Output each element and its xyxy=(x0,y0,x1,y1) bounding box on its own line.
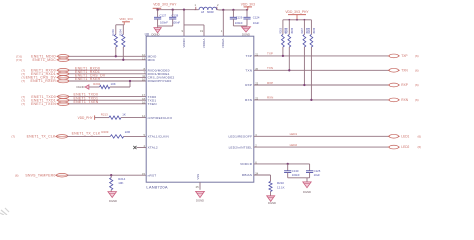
node TXP xyxy=(388,54,419,58)
resistor R202 xyxy=(89,82,116,89)
wire ENET1_RXD1 xyxy=(69,70,146,74)
svg-text:ENET1_MDC: ENET1_MDC xyxy=(33,58,57,62)
capacitor C129 xyxy=(230,10,243,26)
svg-text:LED2: LED2 xyxy=(290,143,298,147)
svg-text:C129: C129 xyxy=(236,15,243,19)
node ENET1_RXD1 xyxy=(21,72,69,76)
node TXN xyxy=(388,68,419,72)
pin 1 VDD2A xyxy=(221,29,225,48)
ground DGND (R214) xyxy=(108,192,117,203)
svg-text:RXP: RXP xyxy=(401,83,408,87)
wire pullup rail xyxy=(283,19,312,21)
svg-text:(6): (6) xyxy=(415,68,419,72)
svg-text:(7): (7) xyxy=(11,135,15,139)
wire XTAL2 stub xyxy=(133,146,146,149)
resistor R207 xyxy=(301,20,309,86)
svg-text:XTAL2: XTAL2 xyxy=(148,146,158,150)
resistor R214 xyxy=(110,175,126,191)
power VDD_3V3 (pullups) xyxy=(116,17,133,25)
svg-text:LAN8720A: LAN8720A xyxy=(146,184,167,189)
svg-text:1K: 1K xyxy=(122,112,126,116)
svg-text:TXP: TXP xyxy=(401,54,407,58)
svg-text:100nF: 100nF xyxy=(292,173,300,177)
svg-text:22R: 22R xyxy=(125,130,130,134)
wire LED1 xyxy=(254,132,389,136)
svg-text:LED1: LED1 xyxy=(290,132,298,136)
pin 23 RXP xyxy=(245,82,258,88)
ground DGND (R202) xyxy=(76,85,88,89)
svg-text:14: 14 xyxy=(142,114,145,118)
wire VDD1A feed xyxy=(184,25,204,36)
wire ENET1_MDIO xyxy=(69,55,146,57)
svg-text:12.1K: 12.1K xyxy=(277,186,285,190)
wire ENET1_CRS_DV xyxy=(69,74,146,78)
node ENET1_MDIO xyxy=(16,55,70,59)
svg-text:19: 19 xyxy=(200,29,203,33)
wire RXN xyxy=(254,96,389,100)
frame corner xyxy=(0,208,9,215)
svg-text:49R9: 49R9 xyxy=(291,27,294,34)
wire ENET1_TXEN xyxy=(69,100,146,104)
resistor R210 xyxy=(254,175,285,196)
node ENET1_MDC xyxy=(16,58,70,62)
svg-text:VDD2A: VDD2A xyxy=(221,38,225,48)
pin 10 RXER/PHYAD0 xyxy=(142,78,171,84)
svg-text:ENET1_TX_CLK: ENET1_TX_CLK xyxy=(27,135,56,139)
resistor R206 xyxy=(286,20,294,72)
svg-text:100nF: 100nF xyxy=(172,21,180,25)
pin 19 VDD1A xyxy=(200,29,206,48)
wire ENET1_MDC xyxy=(69,59,146,61)
wire VDD2A feed xyxy=(222,10,224,36)
inductor L8 xyxy=(195,3,220,14)
wire VDDCR xyxy=(254,163,310,165)
node LED1 xyxy=(388,134,421,138)
pin 24 RBIAS xyxy=(242,172,259,178)
pin 12 MDIO xyxy=(142,53,157,59)
pin 22 RXN xyxy=(245,97,259,103)
ground DGND (VDDCR) xyxy=(303,178,311,194)
svg-text:(6): (6) xyxy=(418,145,422,149)
svg-text:U8: U8 xyxy=(145,32,149,36)
wire ENET1_TXD1 xyxy=(69,96,146,100)
pin 25 VSS xyxy=(196,174,201,189)
ground DGND (VSS) xyxy=(196,191,205,202)
svg-text:C128: C128 xyxy=(172,13,179,17)
wire LED2 xyxy=(254,143,389,147)
resistor R213 xyxy=(95,112,126,119)
svg-text:(7,6): (7,6) xyxy=(16,58,22,62)
pin 14 nINT/REFCLKO xyxy=(142,114,173,120)
svg-text:R213: R213 xyxy=(101,112,108,116)
svg-text:R204: R204 xyxy=(119,29,123,36)
svg-text:LED1/REGOFF: LED1/REGOFF xyxy=(228,135,252,139)
pin 15 nRST xyxy=(142,172,156,178)
wire caps to gnd xyxy=(158,26,173,28)
pin 7 RXD1/MODE1 xyxy=(144,70,170,76)
node ENET1_RXD0 xyxy=(21,68,69,72)
svg-text:XTAL1/CLKIN: XTAL1/CLKIN xyxy=(148,135,169,139)
svg-text:RXER/PHYAD0: RXER/PHYAD0 xyxy=(148,79,172,83)
wire TXN xyxy=(254,66,389,70)
node RXN xyxy=(388,98,419,102)
node ENET1_RXER xyxy=(21,79,69,83)
svg-text:VDD_PHY: VDD_PHY xyxy=(78,116,94,120)
node ENET1_TXD0 xyxy=(21,95,69,99)
pin 21 TXP xyxy=(246,53,259,59)
svg-text:R202: R202 xyxy=(93,82,100,86)
wire nRST xyxy=(67,174,146,176)
svg-text:TXP: TXP xyxy=(267,52,273,56)
ground DGND (C129/C124) xyxy=(242,27,251,37)
svg-text:(6): (6) xyxy=(415,98,419,102)
svg-text:100nF: 100nF xyxy=(235,21,243,25)
svg-text:R207: R207 xyxy=(301,27,304,34)
pin 2 LED2/nINTSEL xyxy=(229,144,258,150)
svg-text:R210: R210 xyxy=(277,181,284,185)
svg-text:49R9: 49R9 xyxy=(313,27,316,34)
capacitor C130 xyxy=(284,164,300,178)
pin 11 CRS_DV/MODE2 xyxy=(142,74,174,80)
svg-text:12: 12 xyxy=(142,53,145,57)
wire ENET1_RXER xyxy=(69,77,146,81)
pin 6 VDDCR xyxy=(240,161,257,167)
op-amp U8 LAN8720A box xyxy=(145,32,254,189)
svg-text:ENET1_TXEN: ENET1_TXEN xyxy=(31,102,56,106)
svg-text:RXP: RXP xyxy=(245,83,252,87)
svg-text:(6): (6) xyxy=(418,134,422,138)
svg-text:VDDIO: VDDIO xyxy=(182,38,186,48)
svg-text:DGND: DGND xyxy=(196,198,204,202)
svg-text:(6): (6) xyxy=(415,54,419,58)
power VDD_3V3 (top right) xyxy=(241,2,255,9)
node LED2 xyxy=(388,145,421,149)
svg-text:VDD1A: VDD1A xyxy=(202,38,206,48)
svg-text:MDC: MDC xyxy=(148,58,156,62)
svg-text:15: 15 xyxy=(142,172,145,176)
pin 16 TXEN xyxy=(142,100,157,106)
svg-text:DGND: DGND xyxy=(303,190,311,194)
node ENET1_TXD1 xyxy=(21,98,69,102)
wire rail VDD_3V3_PHY xyxy=(156,9,195,11)
svg-text:DGND: DGND xyxy=(109,199,117,203)
svg-text:LED1: LED1 xyxy=(401,134,409,138)
pin 18 TXD1 xyxy=(142,97,156,103)
svg-text:(6): (6) xyxy=(415,83,419,87)
svg-text:100nF: 100nF xyxy=(160,21,168,25)
svg-text:13: 13 xyxy=(142,56,145,60)
pin 20 TXN xyxy=(245,67,258,73)
svg-text:LED2: LED2 xyxy=(401,145,409,149)
svg-text:R203: R203 xyxy=(111,29,115,36)
svg-text:LED2/nINTSEL: LED2/nINTSEL xyxy=(229,145,253,149)
svg-text:nRST: nRST xyxy=(148,173,157,177)
node RXP xyxy=(388,83,419,87)
power VDD_PHY xyxy=(78,115,95,119)
svg-text:L8: L8 xyxy=(201,10,205,14)
svg-text:VDD_3V3_PHY: VDD_3V3_PHY xyxy=(153,2,177,6)
svg-text:(6): (6) xyxy=(15,173,19,177)
wire ENET1_RXD0 xyxy=(69,66,146,70)
svg-text:VDDCR: VDDCR xyxy=(240,162,253,166)
pin 5 XTAL1/CLKIN xyxy=(144,133,170,139)
resistor R203 xyxy=(111,25,117,58)
svg-text:R205: R205 xyxy=(279,27,282,34)
resistor R204 xyxy=(119,25,125,61)
svg-text:SNVS_TAMPER0: SNVS_TAMPER0 xyxy=(25,173,55,177)
svg-text:ENET1_TX_CLK: ENET1_TX_CLK xyxy=(72,131,101,135)
capacitor C128 xyxy=(169,10,180,26)
node ENET1_CRS_DV xyxy=(21,76,69,80)
svg-text:RXP: RXP xyxy=(267,81,273,85)
svg-text:25: 25 xyxy=(196,185,199,189)
svg-text:17: 17 xyxy=(142,93,145,97)
capacitor C124 xyxy=(243,10,260,26)
pin 13 MDC xyxy=(142,56,156,62)
svg-text:18: 18 xyxy=(142,97,145,101)
svg-text:VDD_3V3: VDD_3V3 xyxy=(241,2,255,6)
svg-text:(7): (7) xyxy=(21,79,25,83)
svg-text:C127: C127 xyxy=(160,13,167,17)
pin 3 LED1/REGOFF xyxy=(228,133,257,139)
wire RXP xyxy=(254,81,389,85)
wire caps2 to gnd xyxy=(233,25,247,27)
svg-text:10K: 10K xyxy=(111,82,116,86)
node SNVS_TAMPER0 xyxy=(15,173,69,177)
svg-text:VDD_3V3: VDD_3V3 xyxy=(119,17,133,21)
svg-text:ENET1_RXER: ENET1_RXER xyxy=(75,77,101,81)
power VDD_3V3_PHY (top) xyxy=(153,2,178,9)
resistor R208 xyxy=(308,20,316,101)
wire VSS stub xyxy=(199,182,201,190)
svg-text:ENET1_TXEN: ENET1_TXEN xyxy=(74,100,99,104)
wire vddcr caps gnd xyxy=(288,177,310,179)
svg-text:ENET1_RXER: ENET1_RXER xyxy=(31,79,57,83)
svg-text:DGND: DGND xyxy=(76,85,84,89)
power VDD_3V3_PHY (pullups) xyxy=(285,10,309,20)
pin 4 XTAL2 xyxy=(144,144,158,150)
svg-text:nINT/REFCLKO: nINT/REFCLKO xyxy=(148,116,173,120)
wire VDDIO feed xyxy=(183,10,185,37)
svg-text:TXEN: TXEN xyxy=(148,102,157,106)
svg-text:RXN: RXN xyxy=(401,98,408,102)
svg-text:16: 16 xyxy=(142,100,145,104)
svg-text:RBIAS: RBIAS xyxy=(242,173,252,177)
svg-text:C124: C124 xyxy=(253,15,260,19)
svg-text:600R: 600R xyxy=(207,10,214,14)
node ENET1_TX_CLK xyxy=(11,135,68,139)
svg-text:TXN: TXN xyxy=(401,68,408,72)
wire R202 to RXER xyxy=(110,80,131,87)
svg-text:VSS: VSS xyxy=(196,174,200,180)
capacitor C127 xyxy=(154,10,168,26)
svg-text:(7): (7) xyxy=(21,102,25,106)
pin 9 VDDIO xyxy=(182,29,186,47)
svg-text:RXN: RXN xyxy=(267,96,273,100)
svg-text:R208: R208 xyxy=(308,27,311,34)
svg-text:10uF: 10uF xyxy=(253,21,260,25)
svg-text:TXN: TXN xyxy=(267,66,273,70)
wire TX_CLK to XTAL1 xyxy=(124,135,147,137)
svg-text:10: 10 xyxy=(142,78,145,82)
svg-text:R206: R206 xyxy=(286,27,289,34)
svg-text:RXN: RXN xyxy=(245,98,252,102)
resistor R209 xyxy=(67,130,130,138)
wire TXP xyxy=(254,52,389,56)
svg-text:VDD_3V3_PHY: VDD_3V3_PHY xyxy=(285,10,309,14)
ground DGND (C127/C128) xyxy=(152,28,162,37)
wire R213 to nINT xyxy=(121,117,146,119)
svg-text:R209: R209 xyxy=(101,130,108,134)
svg-text:TXP: TXP xyxy=(246,54,253,58)
pin 8 RXD0/MODE0 xyxy=(144,67,170,73)
ground DGND (R210) xyxy=(267,196,276,205)
node ENET1_TXEN xyxy=(21,102,69,106)
capacitor C125 xyxy=(306,164,321,178)
svg-text:TXN: TXN xyxy=(245,69,252,73)
svg-text:10K: 10K xyxy=(118,181,123,185)
wire ENET1_TXD0 xyxy=(69,93,146,97)
svg-text:10uF: 10uF xyxy=(314,173,321,177)
resistor R205 xyxy=(279,20,287,57)
wire rail VDD_3V3 xyxy=(218,9,248,11)
pin 17 TXD0 xyxy=(142,93,156,99)
svg-text:DGND: DGND xyxy=(268,201,276,205)
